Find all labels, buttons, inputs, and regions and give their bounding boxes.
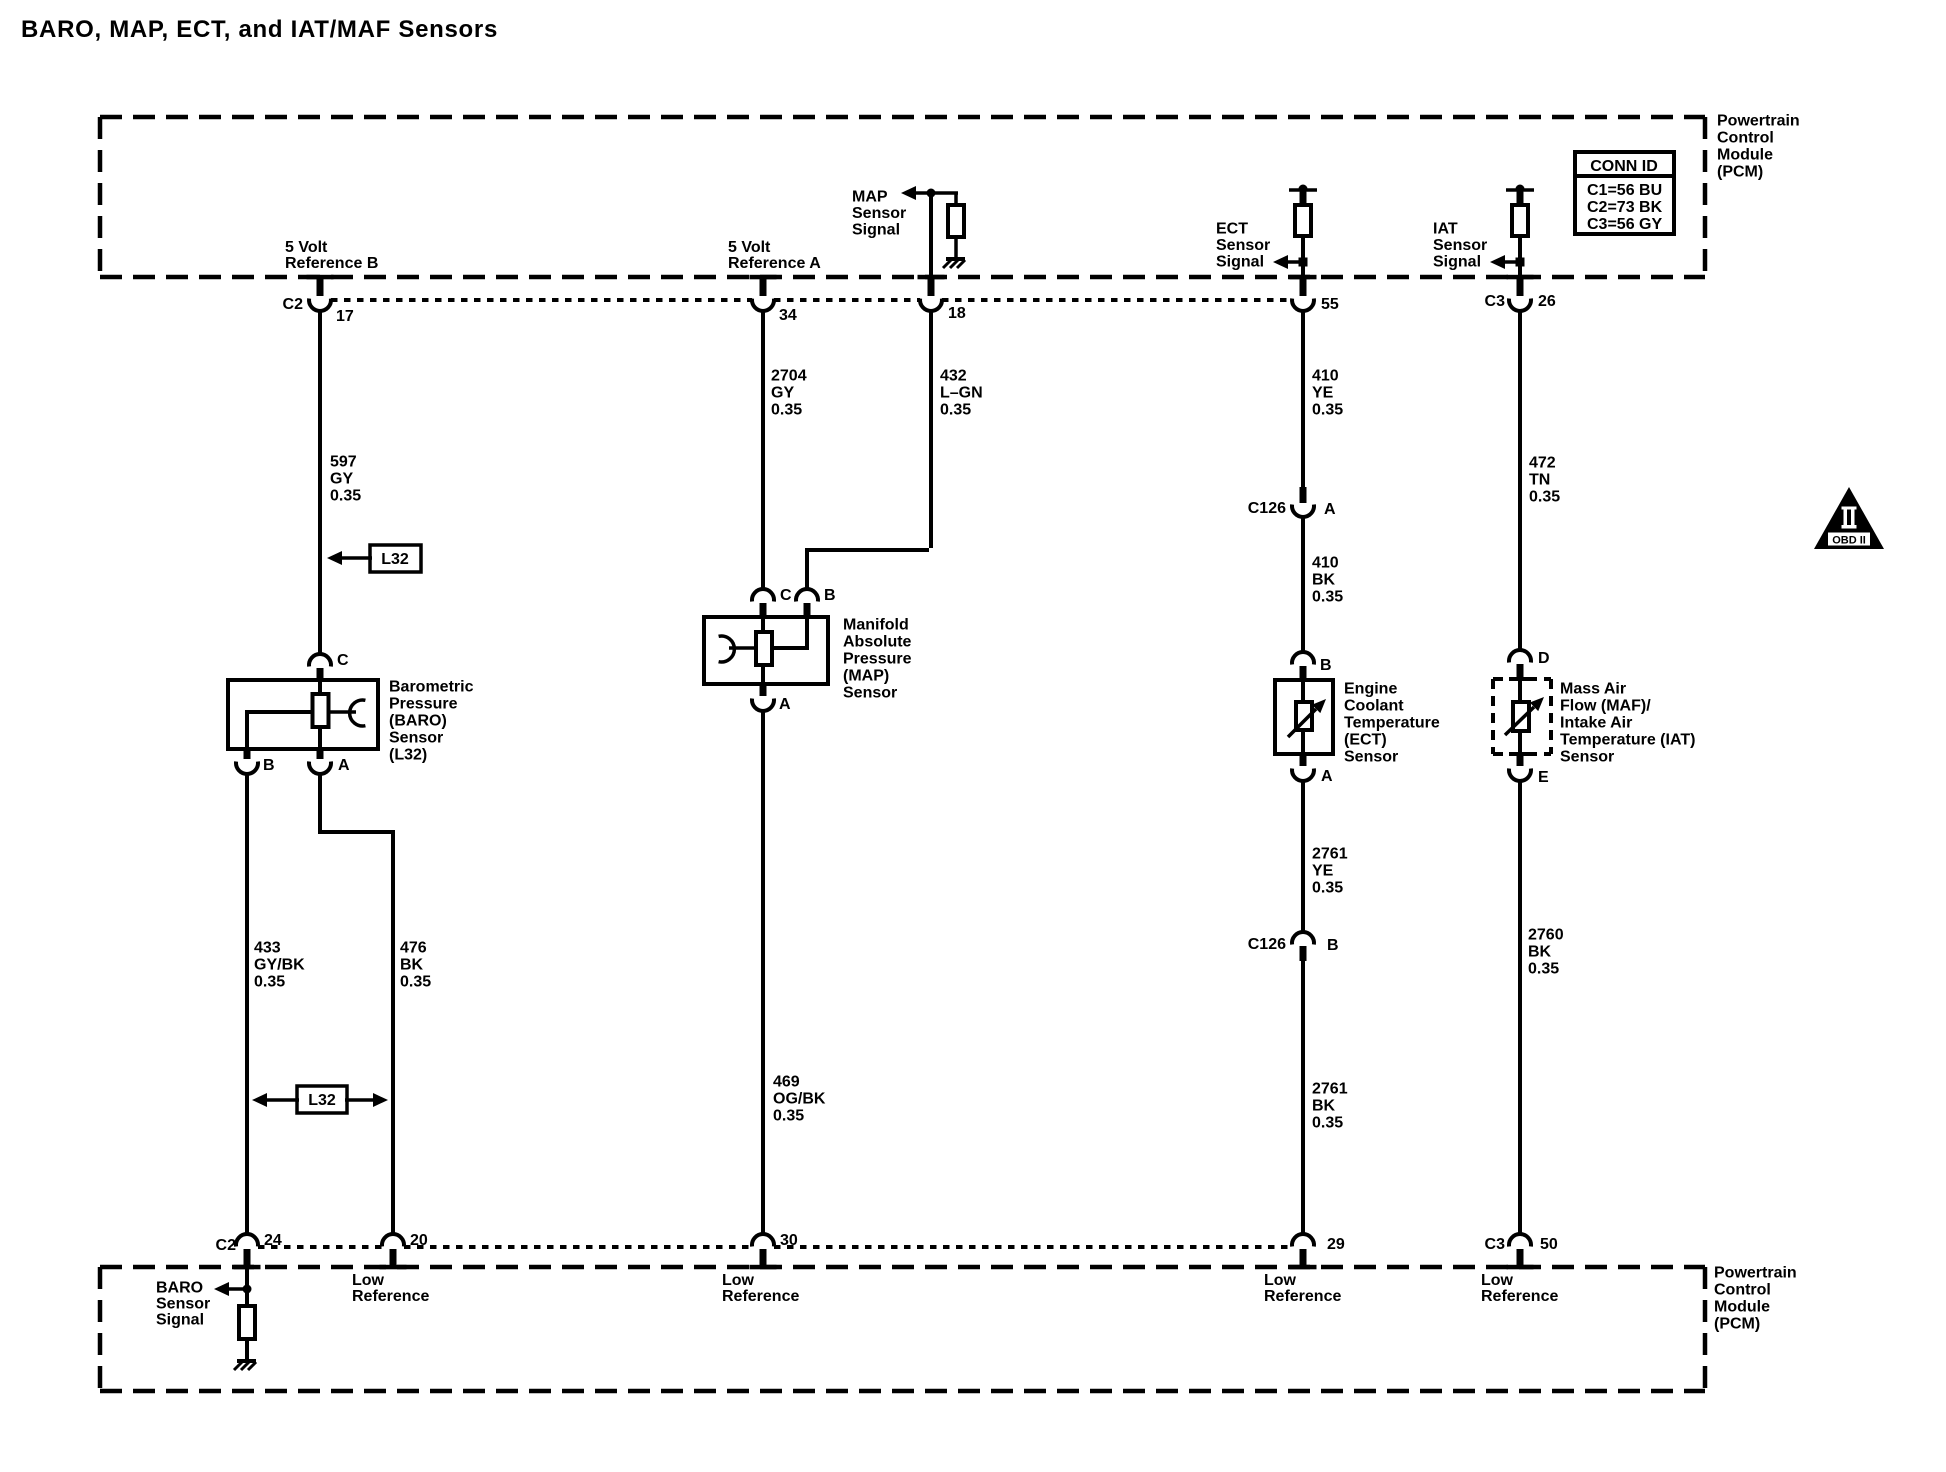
pin 50 connector C3 [1485, 1234, 1558, 1267]
MAP pin A [752, 684, 791, 713]
svg-text:0.35: 0.35 [1312, 1115, 1343, 1132]
svg-text:C1=56 BU: C1=56 BU [1587, 182, 1662, 199]
svg-text:Module: Module [1714, 1299, 1770, 1316]
svg-text:A: A [1324, 501, 1336, 518]
wire 476 BK [318, 772, 393, 1235]
svg-text:Coolant: Coolant [1344, 698, 1404, 715]
svg-text:L32: L32 [381, 551, 409, 568]
MAF sensor box (dashed) [1493, 679, 1551, 754]
ECT internal wire [1301, 681, 1305, 754]
connector C2 dotted line (top) [331, 298, 1292, 302]
PCM bottom box pin edge ticks [234, 1265, 1534, 1270]
svg-text:ECT: ECT [1216, 221, 1248, 238]
CONN ID table [1575, 152, 1674, 234]
MAP pin C [752, 587, 792, 617]
svg-text:Sensor: Sensor [1216, 237, 1270, 254]
svg-text:0.35: 0.35 [330, 488, 361, 505]
svg-text:(PCM): (PCM) [1717, 164, 1763, 181]
svg-text:469: 469 [773, 1074, 800, 1091]
svg-text:0.35: 0.35 [1529, 489, 1560, 506]
svg-text:0.35: 0.35 [940, 402, 971, 419]
svg-text:Signal: Signal [852, 222, 900, 239]
wire 410 YE [1301, 309, 1305, 488]
ECT sensor label [1344, 681, 1440, 766]
svg-text:C3: C3 [1485, 1236, 1506, 1253]
svg-text:C126: C126 [1248, 500, 1286, 517]
wire 2761 BK [1301, 959, 1305, 1235]
wire label 476 BK 0.35 [400, 940, 431, 991]
svg-text:Low: Low [722, 1272, 755, 1289]
Low Reference label (pin 20) [352, 1272, 429, 1305]
svg-text:Sensor: Sensor [389, 730, 443, 747]
svg-text:410: 410 [1312, 368, 1339, 385]
svg-text:5 Volt: 5 Volt [285, 239, 328, 256]
ground (BARO signal) [234, 1361, 256, 1370]
wire label 410 BK 0.35 [1312, 555, 1343, 606]
BARO internal wire to pin B [247, 710, 313, 749]
svg-text:B: B [824, 587, 836, 604]
MAP internal resistor [756, 632, 772, 665]
MAP sensor label [843, 617, 912, 702]
ECT signal supply bar [1289, 185, 1317, 208]
svg-text:Low: Low [1264, 1272, 1297, 1289]
pin 30 connector [752, 1232, 798, 1267]
pin 26 connector C3 [1485, 277, 1556, 311]
BARO internal wire C-to-resistor [318, 681, 322, 696]
svg-text:B: B [1320, 657, 1332, 674]
connector C126 B [1248, 932, 1339, 961]
title [21, 16, 498, 43]
MAF pin E [1509, 754, 1549, 786]
svg-text:0.35: 0.35 [1312, 402, 1343, 419]
BARO pin A [309, 749, 350, 774]
svg-text:A: A [1321, 768, 1333, 785]
wire pin24 to resistor [243, 1267, 252, 1308]
pin 24 connector C2 [216, 1232, 282, 1267]
svg-text:Reference: Reference [352, 1288, 429, 1305]
5 Volt Reference A label [728, 239, 821, 272]
PCM top box pin edge ticks [307, 275, 1534, 280]
svg-text:(ECT): (ECT) [1344, 732, 1387, 749]
svg-text:OBD II: OBD II [1832, 535, 1866, 547]
svg-text:OG/BK: OG/BK [773, 1091, 826, 1108]
svg-text:Mass Air: Mass Air [1560, 681, 1626, 698]
pin 34 connector [752, 277, 797, 324]
svg-text:Low: Low [352, 1272, 385, 1289]
connector C126 A [1248, 487, 1336, 518]
svg-text:Signal: Signal [1216, 254, 1264, 271]
MAP signal junction [927, 189, 936, 198]
svg-text:0.35: 0.35 [254, 974, 285, 991]
svg-text:55: 55 [1321, 296, 1339, 313]
wire label 410 YE 0.35 [1312, 368, 1343, 419]
svg-text:Reference B: Reference B [285, 255, 378, 272]
MAF box edge ticks [1509, 677, 1531, 756]
MAP internal wire C-to-resistor [761, 617, 765, 634]
svg-text:E: E [1538, 769, 1549, 786]
ECT pin A [1292, 754, 1333, 785]
svg-text:BK: BK [400, 957, 424, 974]
MAF sensor label [1560, 681, 1695, 766]
svg-text:0.35: 0.35 [400, 974, 431, 991]
wire label 597 GY 0.35 [330, 454, 361, 505]
ECT sensor box [1275, 680, 1333, 754]
wire 472 TN [1518, 309, 1522, 650]
MAP Sensor Signal label [852, 189, 906, 239]
MAF pin D [1509, 650, 1550, 679]
svg-text:Powertrain: Powertrain [1717, 113, 1800, 130]
svg-text:Control: Control [1717, 130, 1774, 147]
BARO sensor label [389, 679, 474, 764]
svg-text:GY: GY [771, 385, 794, 402]
svg-text:Signal: Signal [1433, 254, 1481, 271]
svg-text:BK: BK [1312, 1098, 1336, 1115]
svg-text:26: 26 [1538, 293, 1556, 310]
svg-text:Pressure: Pressure [843, 651, 912, 668]
BARO internal wire resistor-to-A [318, 727, 322, 749]
L32 reference tag (lower) [252, 1086, 388, 1113]
svg-text:0.35: 0.35 [1312, 880, 1343, 897]
svg-text:Sensor: Sensor [843, 685, 897, 702]
PCM internal resistor (ECT) [1295, 205, 1311, 236]
BARO pin B [236, 749, 275, 774]
svg-text:C: C [337, 652, 349, 669]
PCM internal resistor (MAP signal) [948, 205, 964, 237]
svg-text:Reference: Reference [1264, 1288, 1341, 1305]
wire label 2760 BK 0.35 [1528, 927, 1564, 978]
MAP internal wire resistor-to-A [761, 665, 765, 684]
svg-text:BARO, MAP, ECT, and IAT/MAF Se: BARO, MAP, ECT, and IAT/MAF Sensors [21, 16, 498, 43]
svg-text:BK: BK [1528, 944, 1552, 961]
svg-text:GY/BK: GY/BK [254, 957, 305, 974]
svg-text:30: 30 [780, 1232, 798, 1249]
svg-text:24: 24 [264, 1232, 282, 1249]
svg-text:C2: C2 [283, 296, 304, 313]
wire 469 OG/BK [761, 709, 765, 1235]
wire label 432 L-GN 0.35 [940, 368, 983, 419]
wire label 433 GY/BK 0.35 [254, 940, 305, 991]
svg-text:C: C [780, 587, 792, 604]
svg-text:Reference: Reference [1481, 1288, 1558, 1305]
svg-text:CONN ID: CONN ID [1590, 158, 1658, 175]
svg-text:476: 476 [400, 940, 427, 957]
svg-text:Sensor: Sensor [156, 1296, 210, 1313]
svg-text:0.35: 0.35 [1312, 589, 1343, 606]
svg-text:2760: 2760 [1528, 927, 1564, 944]
ground (MAP signal) [943, 259, 965, 268]
svg-text:L–GN: L–GN [940, 385, 983, 402]
svg-text:2761: 2761 [1312, 1081, 1348, 1098]
svg-text:Sensor: Sensor [1560, 749, 1614, 766]
svg-text:Engine: Engine [1344, 681, 1397, 698]
BARO sensor box [228, 680, 378, 749]
ECT pin B [1292, 652, 1332, 681]
pin 18 connector [920, 193, 966, 322]
wire label 2761 BK 0.35 [1312, 1081, 1348, 1132]
svg-text:IAT: IAT [1433, 221, 1458, 238]
wire MAP resistor to ground [954, 237, 958, 258]
wire 2761 YE [1301, 779, 1305, 932]
svg-text:2704: 2704 [771, 368, 807, 385]
svg-text:Flow (MAF)/: Flow (MAF)/ [1560, 698, 1651, 715]
svg-text:Sensor: Sensor [1433, 237, 1487, 254]
svg-text:410: 410 [1312, 555, 1339, 572]
PCM top box (dashed) [100, 117, 1705, 277]
pin 17 connector C2 [283, 277, 354, 325]
svg-text:Sensor: Sensor [1344, 749, 1398, 766]
svg-text:50: 50 [1540, 1236, 1558, 1253]
wire 2760 BK [1518, 779, 1522, 1235]
wire IAT resistor down [1518, 236, 1522, 277]
Low Reference label (pin 29) [1264, 1272, 1341, 1305]
svg-text:Temperature: Temperature [1344, 715, 1440, 732]
ECT Sensor Signal label [1216, 221, 1270, 271]
wire 597 GY [318, 309, 322, 654]
svg-text:(BARO): (BARO) [389, 713, 447, 730]
svg-text:34: 34 [779, 307, 797, 324]
BARO internal resistor [313, 694, 329, 727]
svg-text:C2=73 BK: C2=73 BK [1587, 199, 1663, 216]
wire 432 L-GN [807, 309, 931, 589]
svg-text:472: 472 [1529, 455, 1556, 472]
IAT sensor signal arrow [1490, 255, 1525, 269]
BARO Sensor Signal label [156, 1280, 210, 1329]
PCM bottom box (dashed) [100, 1267, 1705, 1391]
OBD II symbol [1814, 487, 1884, 549]
wire ECT resistor down [1301, 236, 1305, 277]
L32 reference tag (upper) [327, 545, 421, 572]
svg-text:C3: C3 [1485, 293, 1506, 310]
svg-text:B: B [1327, 937, 1339, 954]
PCM bottom label [1714, 1265, 1797, 1333]
svg-text:0.35: 0.35 [771, 402, 802, 419]
connector dotted line (bottom) [258, 1245, 1292, 1249]
IAT signal supply bar [1506, 185, 1534, 208]
svg-text:BK: BK [1312, 572, 1336, 589]
MAF thermistor [1505, 697, 1544, 735]
wire label 469 OG/BK 0.35 [773, 1074, 826, 1125]
wire 410 BK [1301, 515, 1305, 652]
BARO internal diaphragm [328, 700, 365, 726]
svg-text:Powertrain: Powertrain [1714, 1265, 1797, 1282]
svg-text:Module: Module [1717, 147, 1773, 164]
PCM internal resistor (BARO signal) [239, 1306, 255, 1339]
PCM top label [1717, 113, 1800, 181]
svg-text:597: 597 [330, 454, 357, 471]
pin 20 connector [382, 1232, 428, 1267]
svg-text:Barometric: Barometric [389, 679, 474, 696]
svg-text:C2: C2 [216, 1237, 237, 1254]
svg-text:B: B [263, 757, 275, 774]
svg-text:Sensor: Sensor [852, 205, 906, 222]
svg-text:Reference A: Reference A [728, 255, 821, 272]
wire to MAP signal resistor [954, 193, 958, 207]
ECT thermistor [1288, 699, 1326, 737]
svg-text:29: 29 [1327, 1236, 1345, 1253]
PCM internal resistor (IAT) [1512, 205, 1528, 236]
wire 2704 GY [761, 309, 765, 589]
svg-text:GY: GY [330, 471, 353, 488]
svg-text:2761: 2761 [1312, 846, 1348, 863]
Low Reference label (pin 50) [1481, 1272, 1558, 1305]
svg-text:C126: C126 [1248, 936, 1286, 953]
svg-text:5 Volt: 5 Volt [728, 239, 771, 256]
svg-text:432: 432 [940, 368, 967, 385]
svg-text:C3=56 GY: C3=56 GY [1587, 216, 1662, 233]
svg-text:0.35: 0.35 [773, 1108, 804, 1125]
svg-text:Absolute: Absolute [843, 634, 912, 651]
svg-text:BARO: BARO [156, 1280, 203, 1297]
svg-text:A: A [338, 757, 350, 774]
wire label 472 TN 0.35 [1529, 455, 1560, 506]
svg-text:MAP: MAP [852, 189, 888, 206]
svg-text:Reference: Reference [722, 1288, 799, 1305]
wire label 2704 GY 0.35 [771, 368, 807, 419]
svg-text:433: 433 [254, 940, 281, 957]
svg-text:D: D [1538, 650, 1550, 667]
MAP sensor box [704, 617, 828, 684]
pin 55 connector [1292, 277, 1339, 313]
svg-text:(PCM): (PCM) [1714, 1316, 1760, 1333]
svg-text:(MAP): (MAP) [843, 668, 889, 685]
BARO pin C [309, 652, 349, 681]
wire resistor to ground [245, 1339, 249, 1361]
svg-text:TN: TN [1529, 472, 1550, 489]
MAP internal diaphragm [719, 636, 758, 662]
wire 433 GY/BK [245, 772, 249, 1235]
svg-text:Intake Air: Intake Air [1560, 715, 1632, 732]
svg-text:A: A [779, 696, 791, 713]
svg-text:YE: YE [1312, 385, 1334, 402]
MAP sensor signal arrow [901, 186, 958, 200]
MAF internal wire [1518, 679, 1522, 754]
svg-text:Manifold: Manifold [843, 617, 909, 634]
svg-text:18: 18 [948, 305, 966, 322]
svg-text:YE: YE [1312, 863, 1334, 880]
MAP pin B [796, 587, 836, 617]
svg-text:0.35: 0.35 [1528, 961, 1559, 978]
pin 29 connector [1292, 1234, 1345, 1267]
5 Volt Reference B label [285, 239, 378, 272]
svg-text:Temperature (IAT): Temperature (IAT) [1560, 732, 1695, 749]
wire label 2761 YE 0.35 [1312, 846, 1348, 897]
svg-text:(L32): (L32) [389, 747, 427, 764]
svg-text:Pressure: Pressure [389, 696, 458, 713]
MAP internal wire B branch [772, 617, 809, 650]
ECT sensor signal arrow [1273, 255, 1308, 269]
svg-text:Low: Low [1481, 1272, 1514, 1289]
svg-text:L32: L32 [308, 1092, 336, 1109]
svg-text:20: 20 [410, 1232, 428, 1249]
BARO sensor signal arrow [214, 1282, 247, 1296]
IAT Sensor Signal label [1433, 221, 1487, 271]
svg-text:Signal: Signal [156, 1312, 204, 1329]
svg-text:Control: Control [1714, 1282, 1771, 1299]
Low Reference label (pin 30) [722, 1272, 799, 1305]
svg-text:17: 17 [336, 308, 354, 325]
